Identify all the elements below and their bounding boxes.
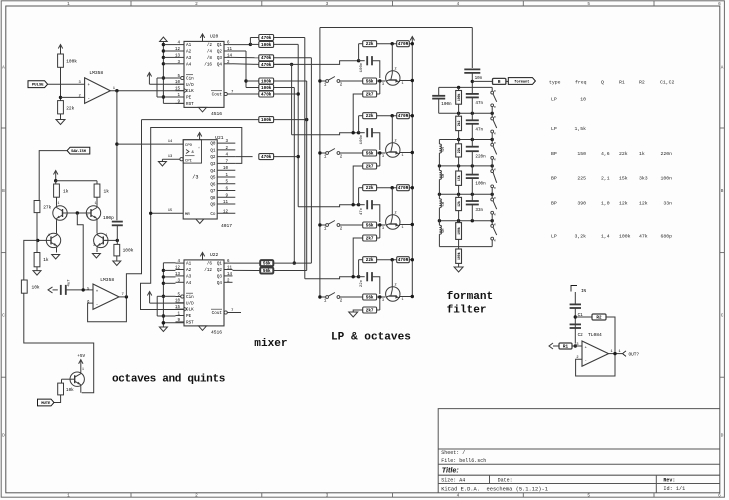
svg-text:470R: 470R	[398, 114, 409, 119]
svg-text:5H: 5H	[442, 229, 446, 233]
LP stage 3 switch	[318, 223, 321, 226]
LP stage 2 input wire	[292, 133, 359, 135]
svg-text:Q4: Q4	[210, 169, 216, 174]
LP stage 1 resistor 56k	[363, 78, 377, 84]
frame row ticks left/right	[1, 127, 6, 129]
svg-text:1: 1	[67, 494, 70, 499]
svg-text:100n: 100n	[660, 176, 672, 182]
svg-text:Sheet: /: Sheet: /	[441, 450, 465, 456]
LP stage 2 resistor 470R	[397, 113, 410, 119]
transistor Q lower-left	[46, 233, 60, 247]
bank wiring Cout row	[241, 93, 259, 95]
svg-text:Q5: Q5	[210, 176, 216, 181]
svg-text:15: 15	[175, 88, 181, 92]
svg-text:680p: 680p	[660, 234, 672, 240]
svg-text:11: 11	[227, 48, 233, 52]
svg-text:1: 1	[402, 298, 404, 302]
svg-text:6: 6	[718, 2, 721, 7]
U22 CLK staircase wire	[141, 213, 185, 309]
svg-text:470k: 470k	[261, 56, 272, 61]
U21 CPO pin	[117, 143, 183, 145]
power arrow +V for R divider	[60, 45, 62, 55]
svg-text:C: C	[721, 313, 724, 318]
svg-text:5H: 5H	[442, 174, 446, 178]
svg-text:100k: 100k	[457, 93, 461, 101]
svg-text:12k: 12k	[619, 201, 628, 207]
formant row wires	[439, 86, 493, 88]
svg-text:15: 15	[168, 209, 173, 213]
svg-text:22k: 22k	[366, 42, 374, 47]
svg-text:Id: 1/1: Id: 1/1	[663, 486, 685, 492]
U20 left pin wires	[163, 44, 175, 46]
svg-text:13: 13	[175, 273, 181, 277]
LP stage 3 resistor 56k	[363, 222, 377, 228]
svg-text:Q4: Q4	[217, 281, 223, 286]
svg-text:3,2k: 3,2k	[574, 234, 586, 240]
formant tap resistor	[472, 80, 492, 82]
svg-text:1: 1	[619, 350, 621, 354]
svg-text:22k: 22k	[366, 258, 374, 263]
svg-text:12: 12	[175, 48, 181, 52]
svg-text:R2: R2	[596, 315, 602, 320]
svg-text:100k: 100k	[261, 86, 272, 91]
svg-text:A3: A3	[186, 275, 192, 280]
wire pin2	[61, 96, 85, 98]
svg-text:47n: 47n	[360, 207, 364, 215]
junction C1 R2	[574, 315, 577, 318]
lower-right emitter ground	[96, 248, 98, 252]
LP stage 2 transistor	[386, 143, 400, 157]
op-amp U?A TL084	[582, 341, 609, 366]
junction cap to cell	[82, 288, 85, 291]
svg-text:File: bell6.sch: File: bell6.sch	[441, 458, 486, 464]
svg-text:22k: 22k	[457, 147, 461, 153]
svg-text:5H: 5H	[442, 202, 446, 206]
svg-text:4516: 4516	[211, 111, 222, 117]
svg-text:RST: RST	[186, 102, 194, 107]
svg-text:octaves and quints: octaves and quints	[112, 374, 225, 386]
svg-text:Q0: Q0	[210, 142, 216, 147]
svg-text:freq: freq	[575, 80, 587, 86]
svg-text:-: -	[585, 360, 587, 364]
svg-text:22k: 22k	[619, 151, 628, 157]
lower-right base wire to rail	[105, 239, 118, 241]
svg-text:C1,C2: C1,C2	[660, 80, 675, 86]
U21 right pins Q0-Q9 Co	[217, 142, 235, 144]
label SAW-ISH	[67, 147, 90, 154]
svg-text:LM358: LM358	[89, 70, 103, 76]
svg-text:3: 3	[576, 343, 578, 347]
svg-text:4: 4	[457, 494, 460, 499]
svg-text:100k: 100k	[457, 252, 461, 260]
svg-text:1k: 1k	[639, 151, 645, 157]
svg-text:2k7: 2k7	[366, 164, 374, 169]
svg-text:14: 14	[227, 273, 233, 277]
wire divider middle	[60, 67, 62, 100]
bus v5	[274, 80, 307, 82]
U22 left bus	[162, 263, 164, 325]
svg-text:A2: A2	[186, 50, 192, 55]
LP stage 4 transistor	[386, 287, 400, 301]
bus v6	[274, 87, 295, 89]
LP stage 3 resistor 22k	[358, 188, 360, 205]
svg-text:1,5k: 1,5k	[574, 126, 586, 132]
svg-text:100n: 100n	[360, 62, 364, 72]
svg-text:RST: RST	[186, 321, 194, 326]
svg-text:10n: 10n	[475, 76, 483, 81]
svg-text:3: 3	[93, 243, 95, 247]
svg-text:1: 1	[402, 226, 404, 230]
svg-text:3: 3	[326, 2, 329, 7]
svg-text:100k: 100k	[261, 118, 272, 123]
svg-text:A4: A4	[186, 281, 192, 286]
op-amp2 output	[119, 296, 126, 298]
svg-text:/6: /6	[207, 262, 213, 267]
mute base resistor 10k	[62, 378, 70, 380]
svg-text:Q1: Q1	[217, 262, 223, 267]
LP stage 3 input wire	[298, 205, 358, 207]
svg-text:U/D: U/D	[186, 301, 194, 306]
svg-text:mixer: mixer	[254, 338, 287, 350]
svg-text:D: D	[721, 434, 724, 439]
svg-text:4516: 4516	[211, 329, 222, 335]
svg-text:U22: U22	[210, 252, 219, 258]
svg-text:TL084: TL084	[588, 332, 602, 338]
svg-text:A4: A4	[186, 62, 192, 67]
svg-text:-: -	[96, 304, 99, 308]
svg-text:LP: LP	[551, 97, 557, 103]
svg-text:470k: 470k	[261, 155, 272, 160]
svg-text:220n: 220n	[660, 151, 672, 157]
U21 Q2 resistor 470k	[235, 156, 252, 158]
U20 U/D power arrow	[148, 73, 150, 85]
IC U20 left pins	[176, 44, 185, 46]
svg-text:5: 5	[587, 494, 590, 499]
LP stage 4 resistor 22k	[358, 260, 360, 277]
svg-text:A: A	[721, 65, 724, 70]
svg-text:Cin: Cin	[186, 77, 194, 82]
wire 10k leg	[24, 240, 38, 280]
svg-text:390: 390	[577, 201, 586, 207]
svg-text:Q3: Q3	[217, 56, 223, 61]
svg-text:56k: 56k	[366, 223, 374, 228]
svg-text:1: 1	[402, 154, 404, 158]
svg-text:D: D	[2, 434, 5, 439]
svg-text:1k: 1k	[63, 189, 69, 195]
svg-text:A1: A1	[186, 43, 192, 48]
IC U22 4516 box	[184, 260, 224, 326]
svg-text:56k: 56k	[366, 295, 374, 300]
capacitor 10n	[464, 68, 480, 70]
svg-text:470R: 470R	[398, 186, 409, 191]
svg-text:C2: C2	[578, 333, 584, 338]
svg-text:BP: BP	[551, 176, 557, 182]
LP stage 1 capacitor 100n	[359, 60, 365, 62]
LP stage 1 switch	[318, 79, 321, 82]
svg-text:4,6: 4,6	[601, 151, 610, 157]
svg-text:11: 11	[227, 267, 233, 271]
svg-text:Q: Q	[601, 80, 604, 86]
TL084 output	[609, 353, 623, 355]
LP stage 3 resistor 2k7	[379, 225, 381, 238]
svg-text:+5V: +5V	[77, 354, 85, 359]
svg-text:27k: 27k	[43, 205, 51, 211]
formant input wire down	[471, 28, 473, 69]
svg-text:13: 13	[168, 155, 173, 159]
svg-text:CLK: CLK	[186, 308, 194, 313]
LP stage 4 resistor 56k	[363, 294, 377, 300]
svg-text:/8: /8	[207, 56, 213, 61]
svg-text:12: 12	[223, 210, 229, 214]
svg-text:KiCad E.D.A. eeschema (5.1.12: KiCad E.D.A. eeschema (5.1.12)-1	[441, 486, 548, 492]
svg-text:BP: BP	[551, 201, 557, 207]
resistor R1 input	[572, 345, 582, 347]
svg-text:U20: U20	[210, 34, 219, 40]
formant ground	[454, 267, 463, 272]
svg-text:/4: /4	[207, 50, 213, 55]
svg-text:MR: MR	[185, 213, 190, 217]
svg-text:A2: A2	[186, 268, 192, 273]
svg-text:11: 11	[223, 201, 229, 205]
svg-text:12k: 12k	[457, 201, 461, 207]
bank wiring Q3 Q4	[233, 56, 259, 58]
svg-text:Q2: Q2	[217, 50, 223, 55]
+V rail LP column	[411, 37, 413, 44]
bus v4	[274, 57, 312, 59]
input arrow unconnected	[48, 287, 53, 293]
svg-text:Cout: Cout	[212, 311, 223, 316]
formant inductors 5H	[438, 140, 440, 145]
svg-text:MUTE: MUTE	[41, 402, 51, 406]
resistor 1k right top	[96, 181, 98, 184]
svg-text:/16: /16	[204, 62, 212, 67]
svg-text:4: 4	[457, 2, 460, 7]
svg-text:22k: 22k	[366, 114, 374, 119]
lower-left emitter ground	[56, 248, 58, 253]
transistor Q lower-right	[94, 233, 108, 247]
title block row lines	[438, 448, 720, 450]
frame column ticks top/bottom	[130, 1, 132, 6]
svg-text:R2: R2	[639, 80, 645, 86]
U22 U/D power arrow	[149, 292, 151, 304]
svg-text:LM358: LM358	[100, 277, 114, 283]
IC U20 right pins Q1-Q4	[224, 44, 233, 46]
svg-text:2: 2	[195, 494, 198, 499]
svg-text:10: 10	[580, 97, 586, 103]
svg-text:Q7: Q7	[210, 189, 216, 194]
resistor 100k divider top	[58, 54, 64, 67]
svg-text:PULSE: PULSE	[32, 84, 44, 88]
formant middle capacitors	[471, 87, 473, 94]
svg-text:3: 3	[382, 155, 384, 159]
label formant hexagon	[508, 78, 535, 85]
svg-text:2: 2	[395, 284, 397, 288]
LP stage 3 resistor 470R	[397, 185, 410, 191]
svg-text:Q3: Q3	[217, 275, 223, 280]
label PULSE	[28, 81, 48, 88]
svg-text:150: 150	[577, 151, 586, 157]
svg-text:10: 10	[223, 167, 229, 171]
svg-text:100k: 100k	[457, 227, 461, 235]
ground below 22k	[60, 114, 62, 120]
resistor 27k	[34, 201, 40, 213]
capacitor 4u7	[60, 285, 62, 295]
title block outline	[438, 409, 720, 493]
U22 ground below bus	[162, 323, 164, 327]
LP stage 4 resistor 2k7	[379, 297, 381, 310]
LP stage 4 input wire	[305, 277, 359, 279]
op-amp2 output staircase to 100k row	[126, 120, 141, 297]
wire saw-ish to 27k	[39, 151, 67, 201]
svg-text:2k7: 2k7	[366, 308, 374, 313]
svg-text:1: 1	[106, 233, 108, 237]
svg-text:100k: 100k	[261, 43, 272, 48]
svg-text:3: 3	[326, 494, 329, 499]
svg-text:IN: IN	[581, 290, 587, 294]
svg-text:14: 14	[227, 54, 233, 58]
svg-text:3: 3	[382, 299, 384, 303]
svg-text:14: 14	[168, 140, 173, 144]
mixer feedback resistor 100k row	[259, 117, 274, 123]
svg-text:2,1: 2,1	[601, 176, 610, 182]
svg-text:PE: PE	[186, 314, 192, 319]
LP stage 3 capacitor 47n	[359, 204, 365, 206]
resistor 1k lower	[36, 240, 38, 252]
svg-text:47n: 47n	[475, 101, 483, 106]
svg-text:Q8: Q8	[210, 196, 216, 201]
svg-text:formant: formant	[447, 291, 494, 303]
svg-text:Q2: Q2	[217, 268, 223, 273]
capacitor 100n left top	[438, 87, 440, 95]
LP stage 1 transistor	[386, 71, 400, 85]
svg-text:1: 1	[611, 350, 613, 354]
svg-text:Cout: Cout	[212, 93, 223, 98]
svg-text:100p: 100p	[103, 215, 114, 221]
LP stage 4 switch	[318, 295, 321, 298]
input open arrow	[549, 343, 553, 349]
LP stage 2 resistor 22k	[358, 116, 360, 133]
resistor 1k left top	[55, 181, 57, 184]
cross couple node	[67, 212, 86, 214]
ground LP column	[349, 312, 358, 317]
svg-text:1k: 1k	[104, 189, 110, 195]
svg-text:/2: /2	[207, 43, 213, 48]
svg-text:2k2: 2k2	[457, 120, 461, 126]
bus v3	[274, 37, 305, 39]
svg-text:15k: 15k	[457, 175, 461, 181]
mixer resistor 56k Q2	[260, 268, 273, 274]
svg-text:56k: 56k	[263, 269, 271, 274]
svg-text:Cin: Cin	[186, 295, 194, 300]
svg-text:U21: U21	[215, 135, 224, 141]
IC U21 4017 box	[183, 140, 217, 219]
U21 CPI ground flag	[161, 159, 163, 161]
wire PULSE to pin3	[48, 83, 85, 85]
svg-text:10k: 10k	[32, 284, 40, 290]
LP stage 2 resistor 2k7	[379, 153, 381, 166]
power arrow 1k rail	[55, 171, 57, 181]
svg-text:Q3: Q3	[210, 162, 216, 167]
bank wiring Q2	[233, 50, 247, 52]
svg-text:CPI: CPI	[185, 160, 192, 164]
op-amp U?B LM358 mixer	[93, 284, 119, 309]
U20 left bus +V	[160, 37, 168, 42]
svg-text:A3: A3	[186, 56, 192, 61]
svg-text:47k: 47k	[639, 234, 648, 240]
U21 CPI pin	[180, 158, 183, 161]
svg-text:-: -	[88, 98, 91, 102]
svg-text:4017: 4017	[221, 223, 232, 229]
svg-text:Q1: Q1	[217, 43, 223, 48]
svg-text:100n: 100n	[360, 134, 364, 144]
formant final resistor 100k	[458, 247, 460, 249]
svg-text:Q9: Q9	[210, 203, 216, 208]
svg-text:4u7: 4u7	[68, 279, 72, 287]
TL084 feedback loop	[576, 354, 615, 376]
svg-text:33n: 33n	[475, 208, 483, 213]
LP stage 1 resistor 2k7	[379, 81, 381, 94]
svg-text:2: 2	[195, 2, 198, 7]
svg-text:/3: /3	[192, 175, 198, 181]
title block dividers	[489, 475, 491, 483]
svg-text:1: 1	[48, 233, 50, 237]
svg-text:12: 12	[175, 267, 181, 271]
wire op-amp1 output to U20 CLK	[110, 90, 184, 92]
svg-text:2: 2	[66, 214, 68, 218]
resistor 10k	[21, 280, 27, 293]
svg-text:filter: filter	[447, 305, 487, 317]
svg-text:R1: R1	[563, 344, 569, 349]
svg-text:1: 1	[82, 367, 84, 371]
svg-text:2k7: 2k7	[366, 236, 374, 241]
svg-text:1k: 1k	[43, 257, 49, 263]
junction divider to pin2	[59, 96, 62, 99]
U20 Cin-PE tie	[157, 77, 176, 79]
resistor bank rows	[259, 35, 274, 41]
svg-text:SAW-ISH: SAW-ISH	[71, 150, 86, 154]
svg-text:Size: A4: Size: A4	[441, 478, 465, 484]
IC U20 4516 box	[184, 41, 224, 107]
mixer resistor 56k Q1	[260, 260, 273, 266]
svg-text:3: 3	[382, 83, 384, 87]
svg-text:A1: A1	[186, 262, 192, 267]
svg-text:470k: 470k	[261, 36, 272, 41]
bus v1	[274, 63, 292, 65]
label MUTE	[38, 399, 55, 406]
svg-text:220n: 220n	[475, 155, 486, 160]
resistor 22k divider bottom	[58, 101, 64, 114]
svg-text:22n: 22n	[360, 279, 364, 287]
resistor 100k to ground	[116, 240, 118, 244]
LP stage 1 input wire	[274, 61, 359, 65]
op-amp2 feedback loop	[88, 297, 127, 322]
svg-text:Rev:: Rev:	[663, 478, 675, 484]
svg-text:Q4: Q4	[217, 62, 223, 67]
bus v2	[274, 43, 299, 45]
transistor Q upper-right	[96, 197, 98, 206]
1k rail wire	[56, 180, 97, 182]
LP stage 4 resistor 470R	[397, 257, 410, 263]
svg-text:formant: formant	[514, 79, 529, 84]
capacitor C2	[570, 323, 581, 325]
svg-text:22k: 22k	[66, 105, 74, 111]
op-amp U?A LM358	[85, 78, 111, 104]
svg-text:Q6: Q6	[210, 182, 216, 187]
svg-text:1,0: 1,0	[601, 201, 610, 207]
svg-text:Q1: Q1	[210, 149, 216, 154]
svg-text:2k7: 2k7	[366, 92, 374, 97]
svg-text:1,4: 1,4	[601, 234, 610, 240]
